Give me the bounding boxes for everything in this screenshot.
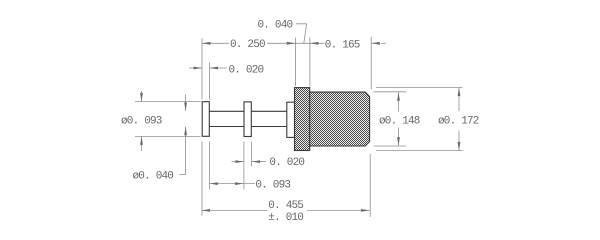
- svg-text:0. 165: 0. 165: [325, 40, 360, 52]
- svg-text:0. 455: 0. 455: [268, 200, 303, 212]
- svg-text:0. 040: 0. 040: [258, 20, 293, 32]
- svg-text:0. 020: 0. 020: [269, 157, 304, 169]
- svg-text:±. 010: ±. 010: [268, 212, 303, 224]
- svg-text:ø0. 040: ø0. 040: [133, 171, 174, 183]
- svg-text:0. 250: 0. 250: [230, 39, 265, 51]
- svg-text:ø0. 093: ø0. 093: [121, 116, 162, 128]
- svg-text:0. 093: 0. 093: [255, 179, 290, 191]
- svg-text:0. 020: 0. 020: [229, 64, 264, 76]
- svg-text:ø0. 148: ø0. 148: [379, 115, 420, 127]
- svg-text:ø0. 172: ø0. 172: [438, 115, 479, 127]
